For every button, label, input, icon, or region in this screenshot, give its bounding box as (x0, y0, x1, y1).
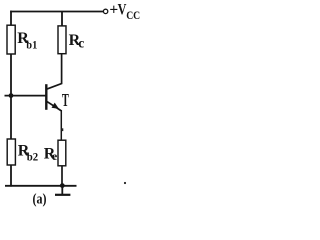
terminal Vcc circle (103, 9, 107, 13)
wire left rail (10, 11, 12, 187)
resistor Rb2 (7, 139, 15, 165)
svg-text:T: T (62, 90, 69, 110)
resistor Rb1 (7, 25, 15, 54)
resistor Re (58, 140, 66, 166)
svg-text:CC: CC (126, 8, 140, 22)
ground (55, 186, 70, 195)
wire Vcc to Rc (61, 12, 63, 27)
transistor T (46, 84, 61, 110)
resistor Rc (58, 26, 66, 54)
wire emitter to Re (61, 110, 63, 141)
wire top rail (10, 11, 103, 13)
wire bottom rail (5, 185, 77, 187)
wire Re to ground rail (61, 166, 63, 187)
svg-text:(a): (a) (33, 192, 47, 208)
wire Rc to collector (47, 54, 61, 89)
node E junction dot (60, 183, 65, 188)
wire base (5, 95, 47, 97)
svg-text:b2: b2 (27, 150, 38, 164)
svg-text:b1: b1 (26, 37, 37, 51)
node B junction dot (9, 93, 14, 98)
svg-text:c: c (78, 35, 84, 50)
svg-text:e: e (52, 149, 58, 163)
